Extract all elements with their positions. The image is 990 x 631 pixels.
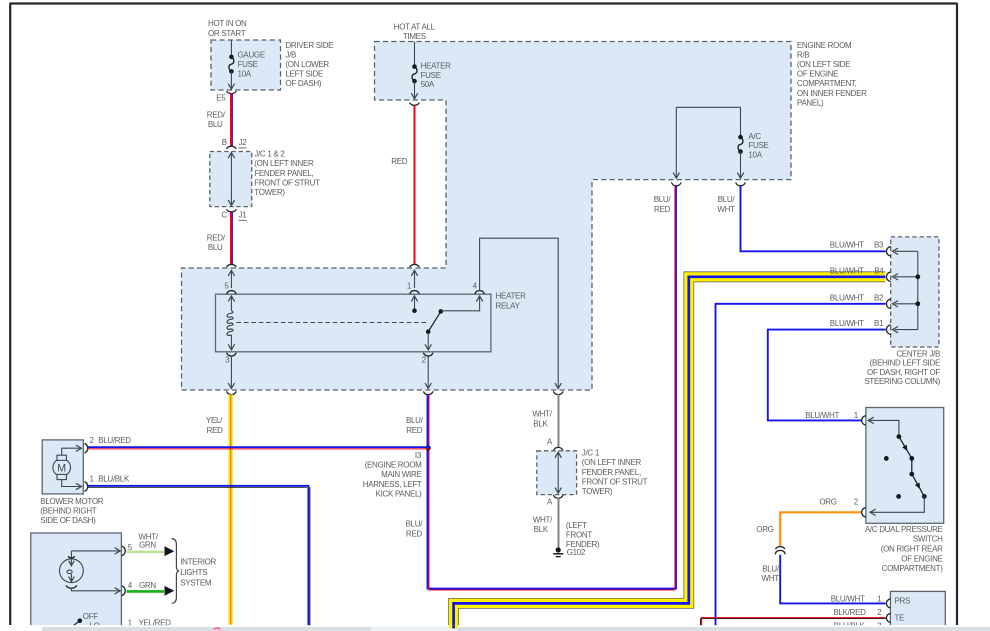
wire BLU/WHT A/C fuse to center J/B B3 (741, 185, 886, 251)
svg-text:J2: J2 (239, 138, 248, 147)
connector YEL/RED under relay (227, 392, 236, 395)
svg-text:(ON LEFT INNER: (ON LEFT INNER (254, 159, 314, 168)
svg-text:B2: B2 (874, 293, 884, 302)
svg-text:OF ENGINE: OF ENGINE (797, 70, 838, 79)
pressure switch internal contacts (868, 420, 899, 434)
svg-text:ON INNER FENDER: ON INNER FENDER (797, 89, 867, 98)
gauge fuse (229, 55, 234, 60)
pink fragment in strip (214, 628, 221, 630)
svg-text:M: M (57, 462, 66, 474)
svg-text:R/B: R/B (797, 50, 809, 59)
connector B1 (886, 325, 890, 334)
relay pin 2 connector (424, 353, 433, 356)
svg-text:ENGINE ROOM: ENGINE ROOM (797, 41, 852, 50)
J/C 1 internal wire (557, 453, 559, 492)
svg-text:J/C 1: J/C 1 (582, 449, 600, 458)
svg-text:A/C DUAL PRESSURE: A/C DUAL PRESSURE (865, 525, 943, 534)
svg-text:WHT: WHT (761, 574, 779, 583)
svg-text:RED: RED (654, 205, 671, 214)
wire BLK/RED (702, 618, 886, 629)
lamp pin 4 wire (71, 588, 118, 591)
svg-text:RED/: RED/ (207, 233, 226, 242)
svg-text:KICK PANEL): KICK PANEL) (376, 489, 423, 498)
svg-text:BLU/: BLU/ (406, 416, 424, 425)
inline connector on pressure switch wire (776, 547, 785, 549)
svg-text:50A: 50A (421, 80, 435, 89)
connector E5 (227, 92, 236, 94)
svg-text:BLU/: BLU/ (762, 565, 780, 574)
wire YEL/RED vertical (229, 394, 233, 624)
svg-text:WHT/: WHT/ (532, 409, 552, 418)
pressure switch free contacts (884, 456, 889, 461)
wire BLU/RED blower motor to I3 (88, 446, 430, 448)
relay coil (227, 311, 233, 336)
connector A lower (554, 495, 563, 498)
wire BLU/BLK blower motor down (88, 486, 309, 629)
A/C fuse (740, 107, 742, 137)
svg-text:DRIVER SIDE: DRIVER SIDE (285, 41, 333, 50)
connector BLU/RED under relay (424, 392, 433, 395)
svg-text:YEL/: YEL/ (206, 416, 223, 425)
svg-text:FRONT: FRONT (566, 531, 592, 540)
arrow to interior lights upper (165, 546, 175, 556)
wire WHT/GRN (127, 551, 164, 554)
svg-text:RED: RED (207, 426, 224, 435)
engine room R/B and heater relay dashed region (182, 42, 792, 391)
svg-text:HARNESS, LEFT: HARNESS, LEFT (363, 480, 422, 489)
wire BLU/RED pin2 to I3 to R/B (428, 185, 677, 588)
connector at relay region edge pin 1 side (410, 264, 419, 266)
heater fuse (412, 64, 417, 69)
frame border top (10, 2, 958, 4)
connector BLU/WHT below R/B (736, 183, 745, 186)
svg-text:(BEHIND LEFT SIDE: (BEHIND LEFT SIDE (870, 359, 940, 368)
svg-text:BLU/WHT: BLU/WHT (830, 267, 864, 276)
svg-text:FRONT OF STRUT: FRONT OF STRUT (582, 477, 648, 486)
frame border right (956, 4, 958, 626)
svg-text:J/B: J/B (285, 50, 296, 59)
svg-text:A/C: A/C (748, 132, 761, 141)
svg-text:COMPARTMENT,: COMPARTMENT, (797, 79, 857, 88)
blower switch box (31, 533, 122, 630)
svg-text:BLU/WHT: BLU/WHT (830, 241, 864, 250)
svg-text:HEATER: HEATER (421, 61, 452, 70)
svg-text:BLU/WHT: BLU/WHT (830, 293, 864, 302)
svg-text:RED: RED (406, 426, 423, 435)
svg-text:FUSE: FUSE (238, 60, 258, 69)
svg-text:ORG: ORG (756, 525, 773, 534)
svg-text:BLU/BLK: BLU/BLK (98, 475, 130, 484)
svg-text:(ENGINE ROOM: (ENGINE ROOM (365, 461, 422, 470)
svg-text:RED/: RED/ (207, 110, 226, 119)
svg-text:FENDER PANEL,: FENDER PANEL, (254, 169, 313, 178)
svg-text:TOWER): TOWER) (582, 487, 613, 496)
relay pin 4 wire to WHT/BLK exit (480, 238, 559, 387)
svg-text:BLK: BLK (533, 420, 548, 429)
svg-text:LIGHTS: LIGHTS (180, 568, 207, 577)
svg-text:FRONT OF STRUT: FRONT OF STRUT (254, 178, 320, 187)
svg-text:FENDER PANEL,: FENDER PANEL, (582, 468, 641, 477)
svg-text:WHT/: WHT/ (533, 515, 553, 524)
svg-text:10A: 10A (238, 69, 252, 78)
ground G102 (556, 547, 561, 552)
relay mechanical link dashed (237, 322, 427, 324)
svg-text:BLU/: BLU/ (654, 195, 672, 204)
wire BLU/WHT B4 highlighted trace (454, 277, 886, 627)
wire WHT/BLK relay to J/C 1 (557, 394, 559, 447)
svg-text:ORG: ORG (819, 498, 836, 507)
connector B4 (886, 272, 890, 281)
svg-text:PANEL): PANEL) (797, 98, 824, 107)
wire BLU/WHT to PRS (780, 555, 885, 604)
junction block J/C 1 box (537, 451, 577, 495)
svg-text:(ON LEFT SIDE: (ON LEFT SIDE (797, 60, 850, 69)
gauge fuse feed wire (230, 40, 232, 57)
junction block J/C 1 and 2 box (210, 152, 252, 207)
svg-text:OF ENGINE: OF ENGINE (901, 554, 942, 563)
svg-text:B1: B1 (874, 319, 884, 328)
PRS pin 2 (886, 614, 890, 623)
frame border left (9, 4, 11, 626)
PRS pin 1 (886, 599, 890, 608)
highlighted wire crossing strip (449, 625, 458, 628)
svg-text:J/C 1 & 2: J/C 1 & 2 (254, 150, 285, 159)
svg-text:STEERING COLUMN): STEERING COLUMN) (864, 377, 940, 386)
relay pin 2 internal wire (427, 333, 429, 350)
wire GRN (127, 590, 164, 593)
connector B2 (886, 299, 890, 308)
relay pin 3 connector (227, 353, 236, 356)
bottom scrollbar strip (0, 625, 990, 631)
svg-text:BLK/RED: BLK/RED (833, 608, 866, 617)
svg-text:CENTER J/B: CENTER J/B (896, 349, 940, 358)
PRS pin 3 (886, 626, 890, 631)
J/C 1 and 2 internal wire (230, 154, 232, 204)
svg-text:OF DASH, RIGHT OF: OF DASH, RIGHT OF (867, 368, 940, 377)
blower motor box (42, 440, 83, 494)
svg-text:G102: G102 (567, 548, 586, 557)
svg-text:OFF: OFF (83, 612, 99, 621)
svg-text:BLK: BLK (534, 525, 549, 534)
center J/B box (891, 237, 939, 347)
connector C / J1 (227, 210, 236, 212)
svg-text:RED: RED (391, 157, 408, 166)
wire RED/BLU from E5 to J2 (230, 94, 232, 146)
svg-text:TOWER): TOWER) (254, 188, 285, 197)
svg-text:BLU: BLU (208, 243, 223, 252)
lamp pin 5 wire (71, 550, 118, 552)
R/B internal bus wire (676, 106, 740, 108)
svg-text:GRN: GRN (139, 581, 156, 590)
heater relay box (216, 294, 491, 352)
svg-text:(ON RIGHT REAR: (ON RIGHT REAR (881, 544, 943, 553)
svg-text:HOT AT ALL: HOT AT ALL (394, 22, 436, 31)
svg-text:BLU/: BLU/ (406, 520, 424, 529)
wire BLU/WHT B1 to pressure switch (768, 330, 886, 421)
svg-text:SYSTEM: SYSTEM (180, 578, 212, 587)
A/C dual pressure switch box (866, 408, 944, 524)
blower motor pin 2 wire (62, 448, 80, 455)
svg-text:J1: J1 (239, 211, 248, 220)
svg-text:RELAY: RELAY (496, 302, 521, 311)
blower motor pin 1 wire (62, 480, 80, 487)
svg-text:INTERIOR: INTERIOR (180, 558, 216, 567)
center J/B internal bus (917, 251, 919, 329)
wire WHT/BLK to ground (557, 498, 559, 548)
svg-text:BLU/RED: BLU/RED (98, 436, 131, 445)
illumination lamp (70, 551, 72, 558)
svg-text:HEATER: HEATER (496, 291, 527, 300)
pressure switch pin 1 (862, 416, 866, 425)
wire ORG (780, 512, 861, 546)
svg-text:(LEFT: (LEFT (566, 521, 587, 530)
connector at relay region edge pin 5 side (227, 264, 236, 266)
svg-text:TE: TE (895, 613, 905, 622)
svg-text:(ON LOWER: (ON LOWER (285, 60, 329, 69)
svg-text:HOT IN ON: HOT IN ON (208, 19, 247, 28)
connector BLU/RED below R/B (672, 183, 681, 186)
arrow to interior lights lower (165, 586, 175, 596)
svg-text:(BEHIND RIGHT: (BEHIND RIGHT (40, 506, 97, 515)
svg-text:BLOWER MOTOR: BLOWER MOTOR (40, 497, 103, 506)
svg-text:GRN: GRN (139, 541, 156, 550)
heater fuse feed wire (414, 42, 416, 67)
svg-text:MAIN WIRE: MAIN WIRE (381, 470, 421, 479)
svg-text:LEFT SIDE: LEFT SIDE (285, 70, 323, 79)
svg-text:B4: B4 (874, 267, 884, 276)
svg-text:FUSE: FUSE (748, 141, 768, 150)
svg-text:BLU: BLU (208, 120, 223, 129)
svg-text:(ON LEFT INNER: (ON LEFT INNER (582, 458, 642, 467)
svg-text:BLU/WHT: BLU/WHT (831, 594, 865, 603)
svg-text:SWITCH: SWITCH (913, 534, 943, 543)
svg-text:BLU/WHT: BLU/WHT (830, 319, 864, 328)
svg-text:I3: I3 (415, 451, 422, 460)
relay pin 4 internal wire (441, 296, 480, 311)
blower motor M symbol (53, 459, 71, 477)
svg-text:BLU/: BLU/ (718, 195, 736, 204)
svg-text:GAUGE: GAUGE (238, 51, 265, 60)
svg-text:E5: E5 (216, 93, 226, 102)
connector WHT/BLK under relay (554, 392, 563, 395)
svg-text:BLU/WHT: BLU/WHT (805, 411, 839, 420)
junction I3 (426, 445, 431, 450)
svg-text:SIDE OF DASH): SIDE OF DASH) (40, 516, 96, 525)
svg-text:C: C (221, 211, 227, 220)
connector B3 (886, 247, 890, 256)
wire BLU/BLK PRS pin3 (716, 629, 886, 631)
wire BLU/WHT B2 (716, 304, 886, 630)
svg-text:B3: B3 (874, 241, 884, 250)
svg-text:OF DASH): OF DASH) (285, 79, 321, 88)
svg-text:COMPARTMENT): COMPARTMENT) (882, 564, 944, 573)
svg-text:B: B (222, 138, 227, 147)
PRS TE box (890, 591, 945, 631)
svg-text:10A: 10A (748, 151, 762, 160)
connector below heater fuse (410, 103, 419, 105)
driver side J/B box (211, 40, 281, 90)
svg-text:WHT: WHT (717, 205, 735, 214)
svg-text:RED: RED (406, 529, 423, 538)
svg-text:FUSE: FUSE (421, 71, 441, 80)
relay switch arm (428, 311, 441, 331)
wire RED heater fuse to relay (414, 105, 416, 264)
pressure switch pin 2 (862, 508, 866, 517)
svg-text:TIMES: TIMES (403, 32, 426, 41)
svg-text:PRS: PRS (895, 597, 911, 606)
interior lights brace (172, 539, 180, 604)
wire RED/BLU from J1 to heater relay box (230, 212, 232, 264)
svg-text:OR START: OR START (208, 29, 246, 38)
